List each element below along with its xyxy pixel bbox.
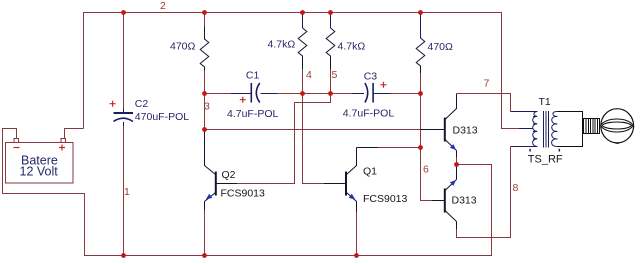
resistor R1 470Ω (left) (170, 13, 209, 94)
svg-text:2: 2 (160, 0, 166, 12)
svg-text:5: 5 (332, 69, 338, 81)
wire: upper D313 collector to transformer top lead (node 7) (457, 94, 511, 112)
svg-text:Q1: Q1 (363, 166, 377, 178)
junction: node 2 rail / R2 (300, 10, 305, 15)
wire: C3 right lead to node 6 top (390, 93, 421, 95)
wire: node 5 row from R3 to C3 (331, 93, 353, 95)
wire: Q2 emitter to ground rail (204, 210, 206, 256)
resistor R2 4.7kΩ (left) (268, 13, 307, 94)
svg-text:FCS9013: FCS9013 (363, 193, 408, 205)
svg-text:C3: C3 (364, 71, 378, 83)
svg-text:1: 1 (124, 186, 130, 198)
junction: node 2 rail / R3 (328, 10, 333, 15)
transistor Q2 FCS9013 (205, 130, 266, 211)
wire: node 6 vertical from R4/C3 down to lower D313 base (421, 94, 433, 201)
junction: node 2 rail / C2 (121, 10, 126, 15)
svg-text:4: 4 (306, 69, 312, 81)
svg-text:4.7uF-POL: 4.7uF-POL (227, 108, 279, 120)
resistor R3 4.7kΩ (right) (326, 13, 365, 94)
svg-text:T1: T1 (539, 96, 551, 108)
resistor R4 470Ω (right) (416, 13, 453, 94)
junction: node 6 R4/C3 (418, 91, 423, 96)
capacitor C2 470uF-POL (110, 98, 190, 126)
svg-text:C1: C1 (246, 70, 260, 82)
wire: battery + terminal up to rail (65, 129, 84, 140)
junction: node 2 rail / R4 (418, 10, 423, 15)
svg-text:470Ω: 470Ω (428, 41, 454, 53)
junction: node 5 R3/C3 (328, 91, 333, 96)
wire: upper D313 emitter to emitter junction (456, 157, 458, 165)
junction: Q2 collector / D313 base wire (202, 127, 207, 132)
lamp LP1 (secondary load) (556, 109, 633, 147)
svg-text:470Ω: 470Ω (170, 41, 196, 53)
junction: ground rail / C2 (node 1) (121, 253, 126, 258)
battery BT1 Batere 12 Volt (6, 139, 74, 184)
svg-text:4.7uF-POL: 4.7uF-POL (343, 108, 395, 120)
svg-text:7: 7 (484, 78, 490, 90)
svg-text:470uF-POL: 470uF-POL (135, 111, 189, 123)
svg-text:6: 6 (423, 164, 429, 176)
junction: node 3 R1/C1/Q2 collector (202, 91, 207, 96)
svg-text:C2: C2 (135, 98, 149, 110)
svg-text:12 Volt: 12 Volt (20, 165, 59, 179)
wire: top +12V rail (node 2) with left drop to battery + and right drop to transformer center tap (84, 13, 520, 129)
wire: node 3 row from R1 to C1 (205, 93, 232, 95)
junction: D313 emitters / ground return (454, 162, 459, 167)
wire: Q2 collector junction to D313 upper base (205, 94, 421, 130)
wire: Q1 emitter to ground rail (356, 212, 358, 256)
wire: node 5 step over and drop to Q2 base (237, 94, 331, 184)
junction: Q1 collector / node 6 (418, 145, 423, 150)
junction: node 4 R2/C1 (300, 91, 305, 96)
svg-text:FCS9013: FCS9013 (221, 188, 266, 200)
svg-text:D313: D313 (453, 125, 478, 137)
wire: C2 top lead from rail (123, 13, 125, 110)
transistor Q1 FCS9013 (324, 148, 408, 213)
transformer T1 TS_RF (511, 96, 563, 166)
wire: C2 bottom lead to ground rail (123, 126, 125, 256)
svg-text:Q2: Q2 (222, 169, 236, 181)
transistor U2 D313 (upper) (421, 94, 478, 158)
wire: C1 right lead to node 4 (277, 93, 331, 95)
svg-text:8: 8 (513, 182, 519, 194)
wire: Q1 collector to node 6 (378, 147, 421, 149)
wire: lower D313 collector to transformer bottom lead (node 8) (457, 147, 511, 238)
junction: ground rail / Q1 emitter (354, 253, 359, 258)
junction: ground rail / Q2 emitter (202, 253, 207, 258)
wire: battery - terminal around left and along ground to emitter junction (3, 129, 492, 256)
svg-text:4.7kΩ: 4.7kΩ (338, 41, 366, 53)
transistor U3 D313 (lower) (432, 165, 477, 230)
wire: node 4 drop to Q1 base (303, 94, 325, 184)
svg-text:D313: D313 (452, 195, 477, 207)
junction: node 2 rail / R1 (202, 10, 207, 15)
svg-text:TS_RF: TS_RF (528, 154, 563, 166)
svg-text:4.7kΩ: 4.7kΩ (268, 39, 296, 51)
capacitor C3 4.7uF-POL (343, 71, 395, 120)
capacitor C1 4.7uF-POL (227, 70, 279, 121)
